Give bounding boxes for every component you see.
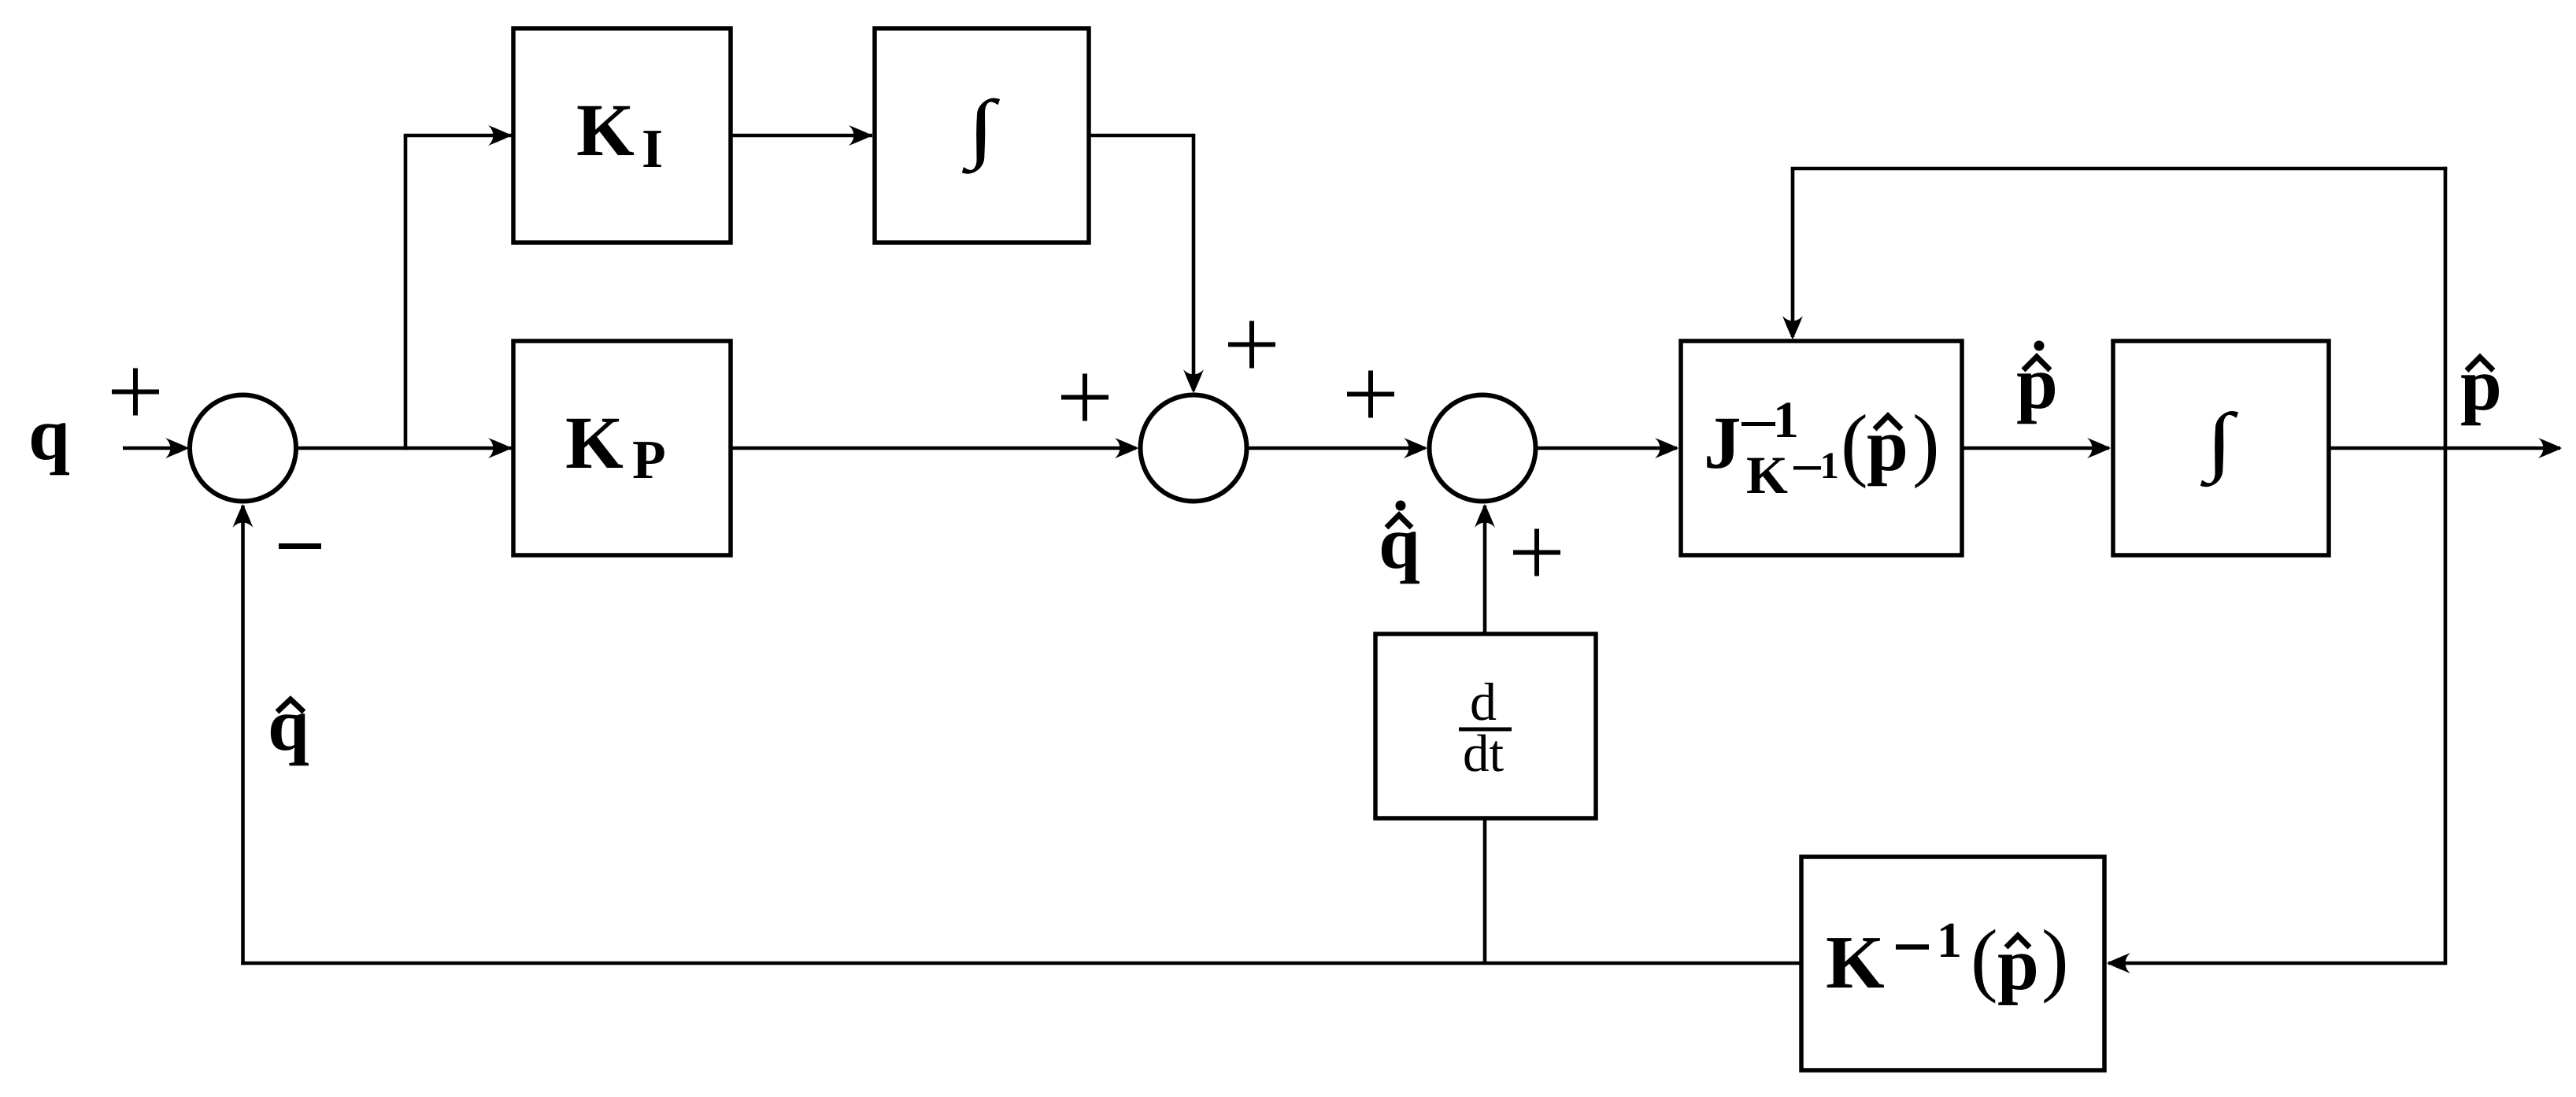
arrowhead into integrator2: [2087, 438, 2111, 458]
arrowhead into J top: [1782, 316, 1803, 339]
summing junction S3: [1430, 395, 1536, 502]
plus sign S2 into S3: [1347, 371, 1394, 418]
arrowhead into KI: [488, 125, 512, 146]
arrowhead into S1 bottom: [233, 504, 254, 528]
arrowhead into S3 bottom: [1475, 504, 1495, 528]
arrowhead output end: [2538, 438, 2562, 458]
wire bottom feedback vertical up into S1: [241, 506, 245, 965]
plus sign integrator1 into S2: [1228, 321, 1275, 369]
wire top feedback down into J top: [1791, 169, 1795, 337]
wire integrator2 to output p: [2329, 447, 2560, 450]
wire branch horizontal into KI: [404, 134, 512, 138]
arrowhead into integrator1: [849, 125, 872, 146]
block KI box: [513, 28, 731, 243]
plus sign KP into S2: [1061, 374, 1108, 421]
wire top feedback horizontal: [1791, 167, 2448, 171]
node label p hat dot between J and integrator2: [2017, 341, 2055, 424]
wire S3 to J block: [1536, 447, 1677, 450]
wire KP to S2: [731, 447, 1136, 450]
arrowhead into S2 left: [1115, 438, 1138, 458]
arrowhead into S1: [165, 438, 189, 458]
wire integrator1 out horizontal: [1089, 134, 1194, 138]
block J box: [1681, 341, 1962, 555]
arrowhead into KP: [488, 438, 512, 458]
block KP box: [513, 341, 731, 555]
block Kinv box: [1801, 857, 2104, 1070]
arrowhead into J left: [1655, 438, 1678, 458]
label ddt fraction: [1459, 683, 1512, 772]
summing junction S2: [1141, 395, 1247, 502]
node label q input: [31, 423, 69, 475]
block integrator1 box: [875, 28, 1089, 243]
wire J to integrator2: [1962, 447, 2109, 450]
node label p hat output: [2461, 358, 2499, 426]
label KP text: [567, 419, 624, 468]
label J block text: [1707, 402, 1936, 493]
arrowhead into S3 left: [1404, 438, 1427, 458]
wire S2 to S3: [1247, 447, 1425, 450]
arrowhead into S2 top: [1183, 369, 1204, 393]
wire branch vertical up to KI row: [404, 135, 408, 450]
wire bottom feedback horizontal into Kinv: [2108, 962, 2445, 965]
arrowhead into Kinv right: [2107, 953, 2130, 973]
wire top feedback vertical at output junction: [2444, 167, 2448, 448]
plus sign at input: [112, 369, 159, 416]
label Kinv block text: [1827, 924, 2065, 1005]
wire ddt out up into S3: [1483, 506, 1487, 634]
minus sign below S1: [279, 543, 321, 549]
wire KI to integrator1: [731, 134, 872, 138]
wire S1 to KP: [296, 447, 512, 450]
block integrator2 box: [2113, 341, 2329, 555]
block ddt box: [1375, 634, 1596, 818]
wire integrator1 out vertical down into S2: [1192, 134, 1196, 391]
node label q hat dot at S3: [1382, 501, 1419, 584]
wire tap up into ddt block: [1483, 818, 1487, 963]
plus sign ddt into S3: [1513, 529, 1560, 576]
wire input q to summing junction S1: [123, 447, 186, 450]
summing junction S1: [190, 395, 296, 502]
label integrator1 text: [962, 98, 1000, 174]
wire bottom feedback vertical from output junction: [2444, 448, 2448, 965]
node label q hat feedback: [271, 699, 309, 765]
wire Kinv output horizontal to left: [241, 962, 1801, 965]
label KI text: [578, 106, 635, 155]
label integrator2 text: [2200, 411, 2238, 487]
